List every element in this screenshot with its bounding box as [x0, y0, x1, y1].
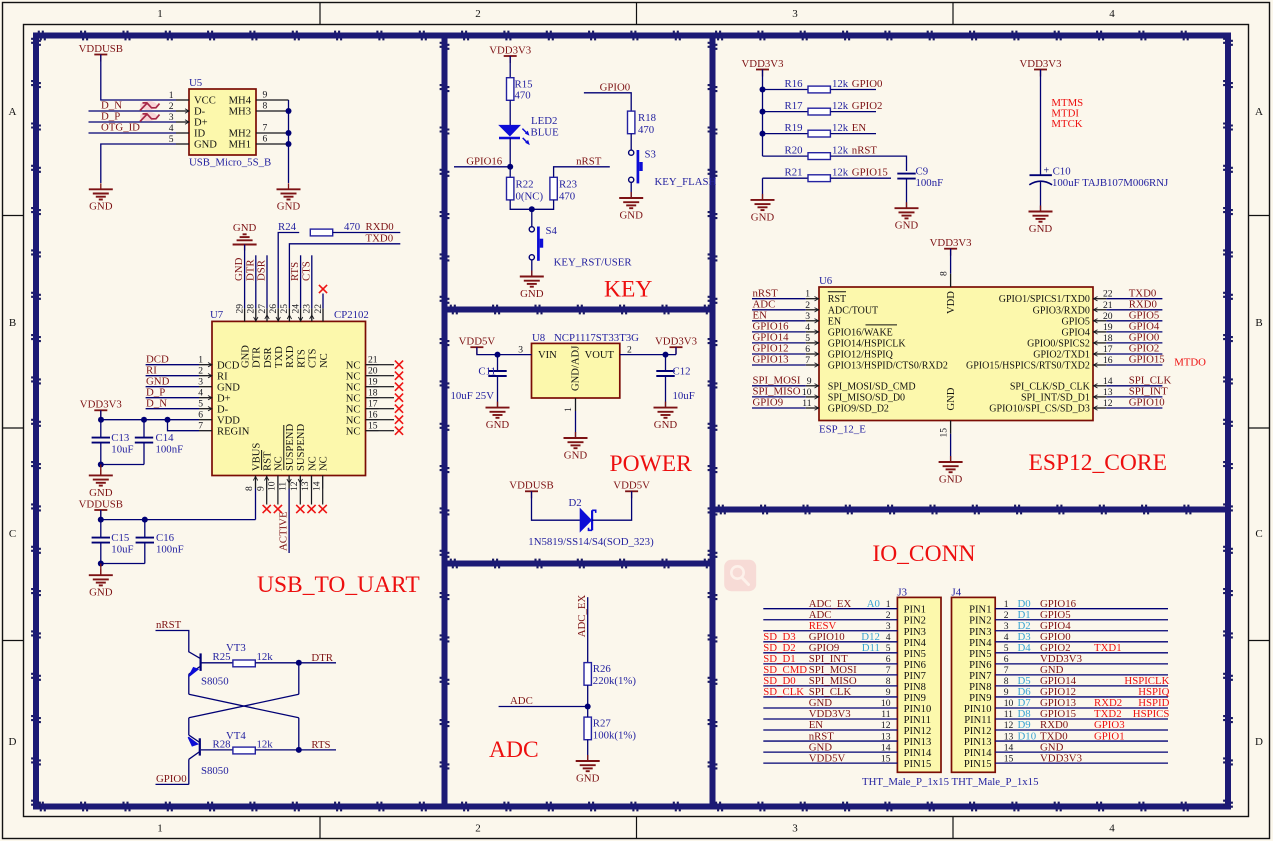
J4 pin11 labels (GPIO15) [1004, 708, 1170, 720]
wire GND to U7 pin29 [244, 245, 246, 309]
svg-text:GPIO3/RXD0: GPIO3/RXD0 [1033, 305, 1090, 316]
svg-text:D_N: D_N [146, 397, 167, 409]
svg-text:6: 6 [1004, 654, 1009, 665]
J3 pin4 labels (GPIO10) [763, 631, 890, 643]
no-connect U7 right pin [395, 416, 403, 424]
svg-text:R20: R20 [785, 145, 803, 157]
U6 pin 8 number [938, 271, 949, 276]
svg-text:VBUS: VBUS [251, 443, 262, 471]
value 100nF (C16) [156, 543, 184, 555]
svg-text:GPIO0: GPIO0 [156, 773, 187, 785]
designator R16 [785, 78, 804, 90]
svg-text:21: 21 [368, 355, 378, 366]
connector J3 THT_Male_P_1x15 [897, 597, 941, 772]
wire J4 pin3 GPIO4 [995, 630, 1168, 632]
svg-text:GPIO0: GPIO0 [600, 81, 631, 93]
svg-text:12k: 12k [832, 100, 849, 112]
svg-text:PIN1: PIN1 [969, 605, 991, 616]
wire R24 to RXD0 [333, 232, 401, 234]
value 0(NC) (R22) [516, 190, 544, 202]
U5 pin names [194, 96, 252, 151]
svg-text:C15: C15 [111, 532, 129, 544]
svg-text:100nF: 100nF [156, 543, 184, 555]
designator C9 [916, 165, 929, 177]
svg-text:THT_Male_P_1x15: THT_Male_P_1x15 [862, 776, 949, 788]
U7 pin9/10/12/13/14 stubs to NC [267, 489, 323, 505]
net label D_P [146, 386, 165, 398]
svg-text:GND: GND [576, 772, 600, 784]
wire VDDUSB drop [100, 510, 102, 520]
wire GPIO0 from U6 [1106, 342, 1162, 344]
svg-text:THT_Male_P_1x15: THT_Male_P_1x15 [952, 776, 1039, 788]
J3 pin3 labels (RESV) [809, 620, 891, 632]
svg-text:12k: 12k [832, 167, 849, 179]
differential pair marker D_N [140, 101, 160, 111]
svg-text:2: 2 [475, 823, 481, 835]
J4 pin12 labels (RXD0) [1004, 719, 1125, 731]
svg-text:GPIO2/TXD1: GPIO2/TXD1 [1033, 350, 1090, 361]
no-connect U7 right pin [395, 361, 403, 369]
wire to R16 [763, 89, 809, 91]
value THT_Male_P_1x15 (J4) [952, 776, 1039, 788]
svg-text:PIN7: PIN7 [969, 671, 991, 682]
resistor R23 [550, 177, 557, 200]
power port VDD3V3 (U8 out) [655, 336, 697, 355]
svg-text:RXD0: RXD0 [366, 221, 394, 233]
svg-text:12: 12 [1004, 720, 1014, 731]
value 12k (R19) [832, 122, 849, 134]
svg-text:VDD3V3: VDD3V3 [930, 237, 972, 249]
wire VDD3V3 to C10 [1040, 70, 1042, 175]
svg-text:GND/ADJ: GND/ADJ [571, 346, 582, 391]
wire C13 to gnd node [100, 443, 102, 465]
net label GPIO0 (U6 right) [1129, 332, 1160, 344]
value 10uF (C12) [673, 390, 695, 402]
net label GPIO2 (U6 right) [1129, 343, 1160, 355]
svg-text:MTDO: MTDO [1174, 357, 1206, 369]
wire VDDUSB to U5 pin1 [101, 55, 176, 101]
svg-text:GND: GND [1029, 223, 1053, 235]
svg-text:C16: C16 [156, 532, 175, 544]
svg-text:GPIO10/SPI_CS/SD_D3: GPIO10/SPI_CS/SD_D3 [989, 404, 1090, 415]
svg-text:GPIO12/HSPIQ: GPIO12/HSPIQ [828, 350, 894, 361]
svg-text:D-: D- [194, 107, 206, 118]
designator R15 [515, 78, 533, 90]
designator C14 [156, 432, 175, 444]
wire to C16 [144, 520, 146, 538]
title IO_CONN [872, 541, 975, 567]
no-connect U7 right pin [395, 427, 403, 435]
net label GPIO0 (S3) [600, 81, 631, 93]
svg-text:TXD0: TXD0 [366, 233, 394, 245]
J3 pin5 labels (GPIO9) [763, 642, 890, 654]
label KEY_RST/USER [554, 257, 633, 269]
designator S3 [645, 149, 656, 161]
wire R17 to GPIO2 [830, 111, 876, 113]
wire EN to U6 [752, 320, 806, 322]
switch S3 [629, 150, 643, 183]
U7 bottom pin stubs, numbers and arrows [244, 476, 323, 492]
value 470 (R24) [344, 221, 360, 233]
wire R27 to GND [587, 740, 589, 761]
svg-text:MH4: MH4 [229, 96, 252, 107]
svg-text:S3: S3 [645, 149, 656, 161]
svg-text:470: 470 [559, 190, 575, 202]
svg-text:VDD3V3: VDD3V3 [489, 44, 531, 56]
designator VT4 [226, 730, 246, 742]
svg-text:KEY_FLASH: KEY_FLASH [655, 176, 717, 188]
svg-text:1N5819/SS14/S4(SOD_323): 1N5819/SS14/S4(SOD_323) [528, 536, 654, 548]
svg-text:GPIO13: GPIO13 [753, 354, 789, 366]
svg-text:R24: R24 [278, 221, 297, 233]
value ESP_12_E [819, 424, 866, 436]
capacitor C13 [92, 438, 110, 443]
svg-text:GND: GND [895, 220, 919, 232]
resistor R27 [584, 717, 591, 740]
wire GPIO16 to U6 [752, 331, 806, 333]
svg-text:PIN14: PIN14 [964, 748, 992, 759]
power port VDD3V3 (U6) [930, 237, 972, 256]
wire crossover 1 [189, 694, 299, 718]
svg-text:3: 3 [1004, 621, 1009, 632]
ground (U5 left) [89, 183, 113, 212]
resistor R15 [507, 78, 514, 101]
value 470 (R18) [638, 124, 654, 136]
designator R22 [516, 179, 534, 191]
J3 pin7 labels (SPI_MOSI) [763, 664, 890, 676]
watermark magnifier icon [724, 560, 756, 591]
value 12k (R16) [832, 78, 849, 90]
J3 pin12 labels (EN) [809, 719, 891, 731]
title KEY [604, 277, 652, 303]
title ADC [489, 737, 539, 763]
wire J4 pin12 RXD0 [995, 729, 1168, 731]
svg-text:ID: ID [194, 129, 206, 140]
designator C10 [1053, 165, 1071, 177]
svg-text:PIN9: PIN9 [969, 693, 991, 704]
U7 top pin stubs, numbers and arrows [234, 304, 323, 322]
svg-text:9: 9 [886, 687, 891, 698]
svg-text:GPIO0: GPIO0 [852, 78, 883, 90]
net label D_P [101, 110, 120, 122]
svg-text:28: 28 [246, 304, 257, 314]
svg-text:GPIO10: GPIO10 [1129, 397, 1165, 409]
svg-text:A: A [1255, 106, 1263, 118]
resistor R19 [808, 130, 830, 137]
resistor R22 [507, 177, 514, 200]
net label GND [146, 375, 170, 387]
wire D_N to U7 [146, 408, 199, 410]
svg-text:NC: NC [346, 415, 361, 426]
svg-text:7: 7 [805, 355, 810, 366]
ground (S4) [520, 271, 544, 300]
wire U5 pin5 to GND [101, 144, 176, 183]
net label D_N [101, 99, 122, 111]
J4 pin6 labels (VDD3V3) [1004, 653, 1082, 665]
net label ADC_EX [576, 595, 588, 638]
designator J4 [952, 586, 962, 598]
wire J4 pin9 GPIO12 [995, 696, 1168, 698]
svg-text:DTR: DTR [244, 259, 256, 281]
J4 pin15 labels (VDD3V3) [1004, 752, 1082, 764]
ground (R21) [751, 194, 775, 223]
no-connect U7 right pin [395, 405, 403, 413]
svg-text:PIN7: PIN7 [904, 671, 926, 682]
wire R18 to S3 [630, 134, 632, 150]
J4 pin13 labels (TXD0) [1004, 730, 1125, 742]
svg-text:3: 3 [886, 621, 891, 632]
svg-text:D+: D+ [194, 118, 208, 129]
wire U7 pin8 VBUS [255, 489, 257, 520]
wire J3 pin4 GPIO10 [763, 641, 897, 643]
resistor R28 [233, 747, 255, 754]
wire nRST to VT3 emitter [156, 631, 201, 659]
svg-text:OTG_ID: OTG_ID [101, 121, 140, 133]
U6 pin 15 number [938, 428, 949, 438]
svg-text:220k(1%): 220k(1%) [593, 675, 637, 687]
net label GPIO16 [466, 155, 503, 167]
resistor R20 [808, 153, 830, 160]
svg-text:4: 4 [1109, 8, 1115, 20]
svg-text:25: 25 [279, 304, 290, 314]
wire DTR down [298, 663, 300, 695]
ground (S3) [619, 192, 643, 221]
svg-text:12k: 12k [257, 651, 274, 663]
wire U7 pin26 to R24 [278, 233, 299, 309]
wire U5 right pins bus [288, 100, 290, 183]
designator LED2 [531, 115, 557, 127]
wire VDD3V3 to R15 [509, 56, 511, 78]
junction C15 [98, 517, 104, 523]
U7 left pin stubs and numbers [198, 355, 212, 432]
wire GPIO16 [454, 166, 510, 168]
svg-text:12k: 12k [832, 78, 849, 90]
net label GPIO0 (VT4) [156, 773, 187, 785]
wire C16 down [144, 543, 146, 564]
wire R21 to GND [762, 178, 764, 200]
svg-text:8: 8 [263, 100, 268, 111]
wire J3 pin6 SPI_INT [763, 663, 897, 665]
svg-text:PIN11: PIN11 [964, 715, 991, 726]
svg-text:PIN4: PIN4 [969, 638, 992, 649]
capacitor C14 [135, 438, 153, 443]
resistor R18 [628, 111, 635, 134]
ground (C13/C14) [89, 465, 113, 499]
svg-text:D10: D10 [1018, 730, 1037, 742]
wire J4 pin15 VDD3V3 [995, 762, 1168, 764]
U5 left pin stubs and numbers [169, 90, 189, 145]
net label EN (R19) [852, 122, 867, 134]
capacitor C12 [656, 371, 674, 376]
wire C14 down [143, 443, 145, 465]
wire J3 pin15 VDD5V [763, 762, 897, 764]
svg-text:ADC_EX: ADC_EX [576, 595, 588, 638]
svg-text:LED2: LED2 [531, 115, 557, 127]
J3 pin11 labels (VDD3V3) [809, 708, 891, 720]
svg-text:VDD5V: VDD5V [809, 752, 846, 764]
svg-text:470: 470 [344, 221, 360, 233]
svg-text:PIN1: PIN1 [904, 605, 926, 616]
svg-text:4: 4 [886, 632, 891, 643]
svg-text:R28: R28 [213, 738, 231, 750]
net label ADC [510, 695, 533, 707]
net label GPIO10 (U6 right) [1129, 397, 1165, 409]
wire GPIO14 to U6 [752, 342, 806, 344]
value 100k (R27) [593, 730, 637, 742]
svg-text:GPIO9/SD_D2: GPIO9/SD_D2 [828, 404, 889, 415]
svg-text:GND: GND [217, 382, 240, 393]
svg-text:8: 8 [886, 676, 891, 687]
svg-text:PIN9: PIN9 [904, 693, 926, 704]
wire node to R27 [587, 707, 589, 718]
wire J4 pin5 GPIO2 [995, 652, 1168, 654]
junction VDD3V3/C13 [98, 417, 104, 423]
power port VDD3V3 (pull-ups) [742, 58, 784, 77]
wire SPI_CLK from U6 [1106, 385, 1162, 387]
resistor R25 [233, 660, 255, 667]
svg-text:PIN4: PIN4 [904, 638, 927, 649]
J4 pin names PIN1-PIN15 [964, 605, 992, 770]
svg-text:2: 2 [886, 610, 891, 621]
wire GPIO5 from U6 [1106, 320, 1162, 322]
ground (U8) [564, 432, 588, 461]
svg-text:8: 8 [244, 486, 255, 491]
net label GPIO15 (R21) [852, 167, 888, 179]
svg-text:13: 13 [881, 731, 891, 742]
svg-text:2: 2 [1004, 610, 1009, 621]
J3 pin13 labels (nRST) [809, 730, 891, 742]
svg-text:PIN8: PIN8 [969, 682, 991, 693]
wire to S4 [531, 209, 533, 226]
no-connect U7 pin12 [296, 505, 304, 513]
svg-text:USB_Micro_5S_B: USB_Micro_5S_B [189, 157, 271, 169]
junction C12 [663, 352, 669, 358]
svg-text:100nF: 100nF [156, 443, 184, 455]
IC U7 CP2102 [212, 321, 366, 475]
wire D2 cathode to VDD5V [592, 491, 632, 520]
svg-text:SPI_MISO/SD_D0: SPI_MISO/SD_D0 [828, 392, 905, 403]
svg-text:+: + [1044, 166, 1050, 177]
svg-text:GPIO16: GPIO16 [466, 155, 503, 167]
wire J3 pin7 SPI_MOSI [763, 674, 897, 676]
svg-text:PIN15: PIN15 [904, 759, 932, 770]
designator VT3 [226, 642, 246, 654]
connector J4 THT_Male_P_1x15 [952, 597, 996, 772]
svg-text:GPIO0/SPICS2: GPIO0/SPICS2 [1027, 338, 1090, 349]
svg-text:DSR: DSR [256, 259, 268, 281]
J4 pin14 labels (GND) [1004, 741, 1064, 753]
wire to C12 [665, 355, 667, 371]
J3 pin names PIN1-PIN15 [904, 605, 932, 770]
switch S4 [529, 227, 543, 261]
svg-text:D-: D- [217, 404, 229, 415]
svg-text:GPIO2: GPIO2 [852, 100, 883, 112]
svg-text:D11: D11 [862, 642, 880, 654]
svg-text:SUSPEND: SUSPEND [285, 424, 296, 471]
svg-text:8: 8 [1004, 676, 1009, 687]
svg-text:VDDUSB: VDDUSB [509, 480, 553, 492]
svg-text:NC: NC [319, 456, 330, 471]
svg-text:VDD5V: VDD5V [613, 480, 650, 492]
svg-text:B: B [9, 317, 16, 329]
svg-text:GND: GND [564, 449, 588, 461]
wire R26 to node [587, 685, 589, 706]
wire VDD3V3 to U6 pin8 [950, 249, 952, 287]
svg-text:VDD3V3: VDD3V3 [1040, 752, 1082, 764]
svg-text:ESP_12_E: ESP_12_E [819, 424, 866, 436]
J4 pin3 labels (GPIO4) [1004, 620, 1071, 632]
svg-text:9: 9 [255, 486, 266, 491]
svg-text:7: 7 [1004, 665, 1009, 676]
svg-text:NC: NC [346, 426, 361, 437]
wire nRST to R23 [554, 167, 610, 178]
ground (C10) [1029, 206, 1053, 235]
designator C12 [673, 366, 691, 378]
svg-text:C12: C12 [673, 366, 691, 378]
net label GPIO5 (U6 right) [1129, 310, 1160, 322]
svg-text:VDD3V3: VDD3V3 [742, 58, 784, 70]
value 100nF (C14) [156, 443, 184, 455]
ground (C9) [895, 202, 919, 231]
differential pair marker D_P [140, 112, 160, 122]
J3 pin1 labels (ADC_EX) [809, 598, 891, 610]
svg-text:CTS: CTS [300, 261, 312, 281]
value 10uF (C15) [111, 543, 133, 555]
U7 top outside net labels [233, 257, 312, 281]
svg-text:29: 29 [234, 304, 245, 314]
wire J4 pin6 VDD3V3 [995, 663, 1168, 665]
U7 right pin stubs, numbers, NC names [346, 355, 379, 438]
net label GPIO14 (U6) [753, 332, 790, 344]
junction U5 MH1 [286, 141, 292, 147]
junction U5 MH3 [286, 108, 292, 114]
J4 pin8 labels (GPIO14) [1004, 675, 1170, 687]
svg-text:NC: NC [274, 456, 285, 471]
resistor R24 [310, 229, 332, 236]
capacitor C10 (polarized) [1029, 166, 1052, 185]
wire S4 to GND [531, 260, 533, 277]
svg-text:D4: D4 [1018, 642, 1032, 654]
svg-text:GND: GND [194, 140, 217, 151]
svg-text:15: 15 [1004, 753, 1014, 764]
svg-text:GPIO15/HSPICS/RTS0/TXD2: GPIO15/HSPICS/RTS0/TXD2 [966, 361, 1090, 372]
no-connect U7 right pin [395, 394, 403, 402]
wire D_P to U7 [146, 397, 199, 399]
svg-text:PIN13: PIN13 [904, 737, 932, 748]
JTAG labels MTMS MTDI MTCK [1051, 97, 1083, 130]
wire J4 pin10 GPIO13 [995, 707, 1168, 709]
svg-text:27: 27 [257, 304, 268, 314]
svg-text:VDDUSB: VDDUSB [79, 498, 123, 510]
svg-text:PIN12: PIN12 [964, 726, 992, 737]
svg-text:GND: GND [619, 209, 643, 221]
U7 pin name overlines (RST, SUSPEND) [262, 425, 284, 470]
U6 right inside pin names [966, 294, 1091, 414]
svg-text:S8050: S8050 [201, 765, 229, 777]
ground (C15/C16) [89, 564, 113, 599]
wire GPIO4 from U6 [1106, 331, 1162, 333]
svg-text:PIN2: PIN2 [969, 616, 991, 627]
svg-text:GPIO15: GPIO15 [1129, 354, 1165, 366]
svg-text:5: 5 [1004, 643, 1009, 654]
value S8050 (VT4) [201, 765, 229, 777]
wire J3 pin2 ADC [763, 619, 897, 621]
svg-text:DTR: DTR [311, 652, 333, 664]
svg-text:13: 13 [1004, 731, 1014, 742]
module U6 ESP_12_E [819, 287, 1093, 421]
svg-text:VDD5V: VDD5V [459, 336, 496, 348]
connector U5 USB_Micro_5S_B [189, 89, 256, 155]
